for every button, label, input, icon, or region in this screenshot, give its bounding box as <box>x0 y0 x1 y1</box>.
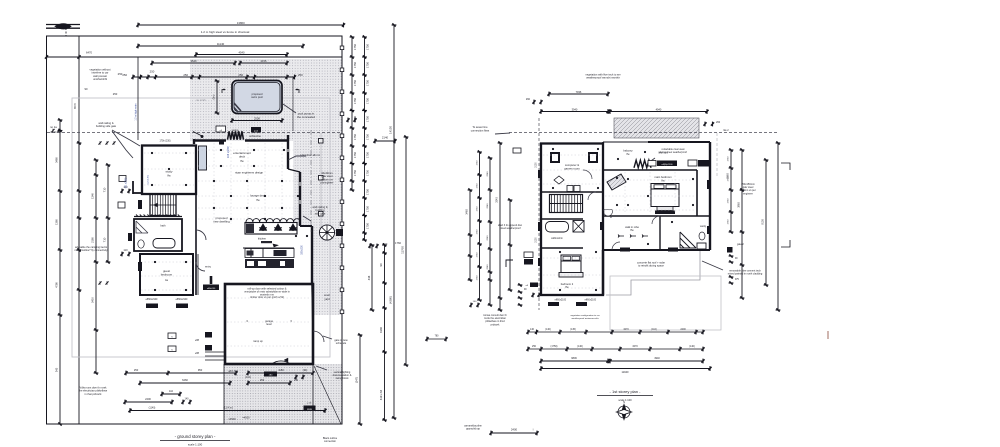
svg-text:4940: 4940 <box>654 357 660 360</box>
svg-text:6470: 6470 <box>86 51 92 55</box>
svg-text:linen dry: linen dry <box>658 152 668 155</box>
svg-text:2040: 2040 <box>487 203 489 209</box>
svg-text:2560: 2560 <box>727 173 730 179</box>
svg-text:1760: 1760 <box>395 241 401 245</box>
svg-text:90: 90 <box>85 87 88 91</box>
svg-text:(140): (140) <box>689 345 695 348</box>
svg-text:1750: 1750 <box>366 152 370 158</box>
svg-text:eff: eff <box>526 285 529 287</box>
svg-text:1750: 1750 <box>366 134 370 140</box>
svg-text:eff60x2100: eff60x2100 <box>585 300 597 302</box>
svg-text:gate 2: gate 2 <box>737 243 744 246</box>
svg-text:building side gate: building side gate <box>96 124 117 128</box>
svg-text:1750: 1750 <box>366 223 370 229</box>
svg-text:ffw: ffw <box>240 159 243 163</box>
svg-text:345: 345 <box>55 367 59 372</box>
svg-text:deck: deck <box>239 155 246 159</box>
svg-text:250: 250 <box>238 73 243 77</box>
svg-text:(90): (90) <box>303 370 307 372</box>
svg-text:1750: 1750 <box>476 206 478 212</box>
svg-text:1340: 1340 <box>91 193 95 199</box>
svg-text:eff8x240: eff8x240 <box>207 288 216 290</box>
svg-text:1750: 1750 <box>476 252 478 258</box>
svg-text:(247): (247) <box>355 377 359 383</box>
svg-text:to retrofit drying space: to retrofit drying space <box>638 264 664 268</box>
svg-text:su2 (130): su2 (130) <box>148 175 150 185</box>
svg-text:1750: 1750 <box>353 98 357 104</box>
svg-text:(110): (110) <box>651 328 657 331</box>
svg-text:108 x(230): 108 x(230) <box>227 146 230 158</box>
svg-text:eff(8)x2100: eff(8)x2100 <box>661 164 673 166</box>
svg-text:3960: 3960 <box>738 202 741 208</box>
svg-text:3640: 3640 <box>191 59 197 63</box>
svg-text:study: study <box>166 170 173 174</box>
svg-text:new dwelling: new dwelling <box>213 220 230 224</box>
svg-text:p.bmybran alb.ms: p.bmybran alb.ms <box>300 154 321 157</box>
svg-text:To sewer line: To sewer line <box>472 125 488 129</box>
svg-text:4780: 4780 <box>55 282 59 288</box>
svg-text:bath: bath <box>160 224 166 228</box>
svg-text:1750: 1750 <box>728 219 730 225</box>
svg-text:- ground storey plan -: - ground storey plan - <box>175 434 216 439</box>
svg-text:scale 1:100: scale 1:100 <box>618 398 632 402</box>
svg-text:su.mrsh: su.mrsh <box>196 98 206 102</box>
svg-text:260: 260 <box>526 98 531 101</box>
svg-text:1.2 m high metre: 1.2 m high metre <box>135 103 138 121</box>
svg-text:11140: 11140 <box>217 42 225 46</box>
svg-text:710: 710 <box>103 187 107 192</box>
svg-text:lde 2: lde 2 <box>723 129 729 132</box>
svg-text:riyan engineers design: riyan engineers design <box>235 170 264 174</box>
svg-text:yard: yard <box>324 297 330 301</box>
svg-text:1.2 m high steel vs fence in c: 1.2 m high steel vs fence in charcoal <box>201 30 250 34</box>
svg-text:kitchen: kitchen <box>258 237 267 241</box>
svg-text:2160: 2160 <box>91 237 95 243</box>
svg-text:1750: 1750 <box>353 134 357 140</box>
svg-text:weatherproof wsmdrt msrshtr: weatherproof wsmdrt msrshtr <box>586 76 620 80</box>
svg-text:710: 710 <box>103 237 107 242</box>
svg-text:2400: 2400 <box>511 428 518 432</box>
svg-text:wdbtnsbrm: wdbtnsbrm <box>551 237 563 240</box>
svg-text:no 1b: no 1b <box>50 130 57 134</box>
svg-text:connection fkws: connection fkws <box>471 129 490 133</box>
svg-text:2140: 2140 <box>382 136 389 140</box>
svg-text:1360: 1360 <box>55 219 59 225</box>
svg-text:14150: 14150 <box>389 126 393 134</box>
svg-text:11940: 11940 <box>621 370 629 374</box>
svg-text:250: 250 <box>134 368 139 372</box>
svg-text:3460: 3460 <box>466 209 469 215</box>
svg-text:2100: 2100 <box>536 237 538 243</box>
svg-text:3470: 3470 <box>623 328 629 331</box>
svg-text:(110): (110) <box>245 376 251 379</box>
svg-text:6570: 6570 <box>73 103 77 109</box>
svg-text:2040: 2040 <box>487 264 489 270</box>
svg-text:250: 250 <box>118 72 123 76</box>
svg-text:5410: 5410 <box>91 297 95 303</box>
svg-text:2400: 2400 <box>145 397 151 401</box>
svg-text:250: 250 <box>183 73 188 77</box>
svg-text:3940: 3940 <box>572 107 578 111</box>
svg-text:439 x 64: 439 x 64 <box>379 389 383 400</box>
svg-text:9806: 9806 <box>571 357 577 360</box>
svg-text:260: 260 <box>716 121 721 124</box>
svg-text:1750: 1750 <box>476 275 478 281</box>
svg-text:4x50: 4x50 <box>278 368 284 372</box>
svg-text:250: 250 <box>260 378 265 382</box>
svg-text:1750: 1750 <box>366 44 370 50</box>
svg-text:6460: 6460 <box>182 378 188 382</box>
svg-text:timber door vs per grsth a.52j: timber door vs per grsth a.52j <box>250 295 284 299</box>
svg-text:(1750): (1750) <box>551 345 558 348</box>
svg-text:1750: 1750 <box>366 116 370 122</box>
svg-text:250: 250 <box>122 73 127 77</box>
svg-text:ffw: ffw <box>256 198 259 202</box>
svg-text:1750: 1750 <box>728 156 730 162</box>
svg-text:2040: 2040 <box>496 197 499 203</box>
svg-text:schedule: schedule <box>336 341 347 345</box>
svg-text:4540: 4540 <box>239 50 245 54</box>
svg-text:(140): (140) <box>577 345 583 348</box>
svg-text:13860: 13860 <box>237 21 245 25</box>
svg-text:1750: 1750 <box>353 152 357 158</box>
svg-text:3470: 3470 <box>632 345 638 348</box>
svg-text:(5m): (5m) <box>214 94 216 99</box>
svg-text:140: 140 <box>530 328 535 331</box>
svg-text:170b (230): 170b (230) <box>159 141 170 143</box>
svg-text:eff60x2100: eff60x2100 <box>146 298 158 301</box>
svg-text:1750: 1750 <box>366 189 370 195</box>
svg-text:in that prdcwrk: in that prdcwrk <box>85 392 103 396</box>
svg-text:eff8: eff8 <box>195 339 200 342</box>
svg-text:pool: pool <box>254 131 259 133</box>
svg-text:4380: 4380 <box>379 327 383 333</box>
svg-text:110: 110 <box>123 248 128 252</box>
svg-text:lounge deck: lounge deck <box>250 194 266 198</box>
svg-text:250: 250 <box>532 345 537 348</box>
svg-text:=4500: =4500 <box>242 416 250 420</box>
svg-text:(145): (145) <box>570 328 576 331</box>
svg-text:1750: 1750 <box>366 170 370 176</box>
svg-text:9100: 9100 <box>762 219 765 225</box>
svg-text:4940: 4940 <box>656 107 662 111</box>
svg-text:250: 250 <box>150 70 155 74</box>
svg-text:(140): (140) <box>545 328 551 331</box>
svg-text:2040: 2040 <box>487 171 489 177</box>
svg-text:N: N <box>623 400 625 404</box>
svg-text:scale 1:100: scale 1:100 <box>188 443 203 447</box>
svg-text:950: 950 <box>198 368 203 372</box>
svg-text:90: 90 <box>379 263 383 266</box>
svg-text:110: 110 <box>169 390 174 393</box>
svg-text:2508: 2508 <box>254 116 260 120</box>
svg-text:2040: 2040 <box>487 235 489 241</box>
svg-text:250: 250 <box>294 379 299 382</box>
svg-text:mixed outline? fly connectivit: mixed outline? fly connectivity <box>74 249 108 252</box>
svg-text:=4500: =4500 <box>228 417 236 421</box>
svg-text:games room: games room <box>564 166 580 170</box>
svg-text:180x230: 180x230 <box>301 245 304 255</box>
svg-text:mixed painted in north claddin: mixed painted in north cladding <box>728 273 763 276</box>
svg-text:1750: 1750 <box>366 98 370 104</box>
svg-text:engineer: engineer <box>743 192 753 195</box>
svg-text:(31 x230): (31 x230) <box>125 178 128 189</box>
svg-text:140: 140 <box>185 398 190 401</box>
svg-text:ffw: ffw <box>661 178 664 182</box>
svg-text:ffw: ffw <box>626 153 629 156</box>
svg-text:1750: 1750 <box>476 160 478 166</box>
svg-text:1750: 1750 <box>353 170 357 176</box>
svg-text:1750: 1750 <box>353 44 357 50</box>
svg-text:ffw: ffw <box>565 285 568 289</box>
svg-text:1750: 1750 <box>728 198 730 204</box>
svg-text:(1140): (1140) <box>149 407 156 410</box>
svg-text:planngheer: planngheer <box>321 181 334 185</box>
svg-text:1750: 1750 <box>353 80 357 86</box>
svg-text:entry: entry <box>205 265 211 269</box>
svg-text:1750: 1750 <box>353 62 357 68</box>
svg-text:mixed weatherproof: mixed weatherproof <box>500 227 521 230</box>
svg-text:eff: eff <box>220 130 223 132</box>
svg-text:eff8: eff8 <box>195 352 200 355</box>
svg-text:7936: 7936 <box>576 90 582 94</box>
svg-text:prdswrk: prdswrk <box>491 323 501 326</box>
svg-text:connection: connection <box>324 440 337 443</box>
svg-text:ramp up: ramp up <box>253 339 263 343</box>
svg-text:1750: 1750 <box>476 229 478 235</box>
svg-text:pppmchtb ap: pppmchtb ap <box>466 428 480 431</box>
svg-text:swing block: swing block <box>336 377 350 380</box>
svg-text:unbtectne: unbtectne <box>249 134 261 138</box>
svg-text:balcony: balcony <box>623 149 633 153</box>
svg-text:250: 250 <box>298 73 303 77</box>
svg-text:unothwrshbl: unothwrshbl <box>93 77 107 81</box>
svg-text:4156: 4156 <box>261 59 267 63</box>
svg-text:side gate: side gate <box>315 211 326 215</box>
svg-text:vegetation configuration to se: vegetation configuration to ser <box>570 314 600 317</box>
svg-text:448: 448 <box>367 275 371 280</box>
svg-text:1750: 1750 <box>366 80 370 86</box>
svg-text:no 1a: no 1a <box>50 125 57 129</box>
svg-text:1750: 1750 <box>476 183 478 189</box>
svg-text:weatherproof mvtmsmsrshtr: weatherproof mvtmsmsrshtr <box>571 317 598 320</box>
svg-text:the concealed: the concealed <box>297 115 315 119</box>
svg-text:eff60x2100: eff60x2100 <box>176 298 188 301</box>
svg-text:eff60x2100: eff60x2100 <box>555 300 567 302</box>
svg-text:level: level <box>266 322 272 326</box>
svg-text:ffw: ffw <box>630 228 633 232</box>
svg-text:1750: 1750 <box>366 206 370 212</box>
svg-text:ffw: ffw <box>167 174 170 178</box>
svg-text:11760: 11760 <box>401 246 405 254</box>
svg-text:court: court <box>324 293 330 297</box>
svg-text:(4380): (4380) <box>389 296 393 304</box>
svg-text:- 1st storey plan -: - 1st storey plan - <box>610 389 642 394</box>
svg-text:vanity: vanity <box>700 225 707 228</box>
svg-text:swim pool: swim pool <box>251 95 263 99</box>
svg-text:(11.4 m): (11.4 m) <box>223 406 233 410</box>
svg-text:2100: 2100 <box>536 162 538 168</box>
svg-text:swing: swing <box>232 128 239 132</box>
svg-text:2400: 2400 <box>680 328 686 331</box>
svg-text:3460: 3460 <box>55 157 59 163</box>
svg-text:1750: 1750 <box>366 62 370 68</box>
svg-text:250: 250 <box>113 92 118 96</box>
